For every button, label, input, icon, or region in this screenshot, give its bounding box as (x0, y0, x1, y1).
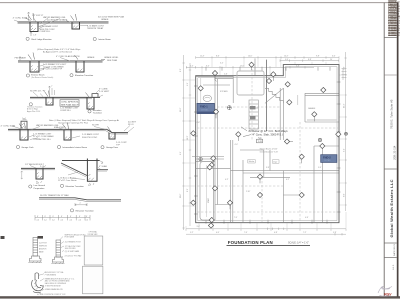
svg-text:4'-0": 4'-0" (235, 144, 239, 146)
plan interior walls vertical (215, 58, 322, 222)
detail 4 slab line (8, 129, 128, 132)
svg-text:COMPACTED FILL: COMPACTED FILL (33, 138, 52, 141)
plan wall opening ticks (194, 67, 341, 224)
svg-text:3" MIN FROM EDGE: 3" MIN FROM EDGE (45, 286, 62, 288)
svg-text:8'-0": 8'-0" (344, 193, 346, 197)
detail 4 label B (57, 145, 60, 148)
svg-text:Garage Door: Garage Door (106, 146, 118, 149)
svg-text:2-4: 2-4 (52, 219, 55, 221)
svg-text:Dryer: Dryer (273, 160, 278, 163)
svg-text:4x4 POST: 4x4 POST (39, 243, 47, 245)
svg-text:5'-8": 5'-8" (333, 232, 337, 234)
post circle 3 (318, 138, 321, 141)
svg-text:2'-10": 2'-10" (246, 191, 251, 193)
svg-text:20": 20" (88, 185, 91, 187)
pier detail A tag (38, 236, 44, 239)
svg-text:12"x20" CONC BEAM: 12"x20" CONC BEAM (33, 135, 54, 138)
svg-text:4x4 TREATED POST: 4x4 TREATED POST (65, 240, 81, 243)
svg-text:5'-0": 5'-0" (318, 167, 322, 169)
svg-text:9'-2": 9'-2" (344, 148, 346, 152)
svg-text:2-4: 2-4 (70, 219, 73, 221)
detail 1: brick ledge / interior beam section (18, 22, 109, 32)
svg-text:SLOPE 1/4" / FT: SLOPE 1/4" / FT (30, 90, 46, 92)
stair ladder dark treads (250, 106, 256, 109)
svg-text:6'-4": 6'-4" (187, 82, 189, 86)
svg-text:FIN GRADE: FIN GRADE (15, 57, 27, 60)
svg-text:FND-2: FND-2 (323, 155, 331, 159)
svg-text:3" CLR COVER TYP: 3" CLR COVER TYP (43, 68, 63, 70)
svg-text:3'-6": 3'-6" (266, 167, 270, 169)
svg-text:As Approved P.T. or Reinforced: As Approved P.T. or Reinforced (43, 51, 73, 54)
svg-text:6'-0": 6'-0" (332, 56, 336, 58)
svg-text:3000 PSI CONC: 3000 PSI CONC (82, 137, 98, 139)
svg-text:DATE 08-21: DATE 08-21 (393, 243, 396, 256)
svg-text:FND-1: FND-1 (200, 105, 208, 109)
plan top dimension line A (196, 56, 339, 58)
plan outer walls (196, 65, 339, 223)
detail 8 numbers (37, 216, 89, 221)
detail 2: exterior beam section (18, 59, 105, 72)
svg-text:1'-8": 1'-8" (33, 35, 37, 37)
right dim tick cluster (342, 69, 347, 81)
detail 6 top line (62, 160, 100, 162)
detail 5: low ground prep section (21, 168, 55, 179)
title block divider 3 (384, 242, 397, 244)
signature mark (378, 286, 392, 296)
slab note tag box (257, 139, 263, 143)
svg-text:6x6 10/10 WWM SEE PLAN: 6x6 10/10 WWM SEE PLAN (98, 15, 125, 18)
svg-text:4'-2": 4'-2" (225, 179, 229, 181)
svg-text:2-#5 BARS CONT: 2-#5 BARS CONT (82, 133, 100, 136)
detail 6 leader lines (68, 161, 103, 186)
detail 3 curb upstand (92, 94, 98, 98)
title block divider 1 (384, 36, 397, 38)
blue callout box 1 (197, 103, 214, 113)
detail 7 label (70, 209, 73, 212)
svg-text:COMP FILL: COMP FILL (60, 110, 72, 112)
svg-text:(2) #4 VERT BARS: (2) #4 VERT BARS (65, 250, 80, 253)
detail 3 slab line (30, 96, 100, 98)
plan bottom dimension texts (190, 232, 337, 234)
detail 4 curb dim (22, 118, 27, 120)
svg-text:4" CONC SLAB 3000 PSI: 4" CONC SLAB 3000 PSI (56, 55, 80, 58)
detail 3 apron note box (60, 100, 79, 106)
title block notes backing stripes (388, 0, 397, 35)
plan interior walls horizontal (192, 77, 339, 205)
detail 8: dimension strip table (35, 215, 90, 220)
svg-text:2-#4 VERT: 2-#4 VERT (99, 91, 110, 93)
detail 3 dim cluster (48, 86, 54, 95)
detail 1 label A (26, 37, 29, 40)
sheet bottom border band (0, 296, 400, 298)
closet room rounded outline (237, 71, 264, 95)
detail 5 slab line (21, 167, 55, 169)
detail 7: step transition plan (39, 198, 121, 202)
svg-text:JOB: 21-114: JOB: 21-114 (392, 145, 396, 160)
detail 2 footing pit B (76, 61, 84, 72)
svg-text:Exterior Beam: Exterior Beam (31, 74, 44, 77)
svg-text:2-4: 2-4 (86, 219, 89, 221)
svg-text:Elevation Transition: Elevation Transition (66, 185, 85, 188)
detail 3 leader lines (33, 90, 103, 97)
detail 3 step pit (46, 97, 53, 105)
plan left dimension line 2 (189, 63, 191, 226)
svg-text:5'-2": 5'-2" (190, 232, 194, 234)
hall heavy vertical wall (266, 60, 268, 131)
slab note leaders (241, 127, 251, 137)
plan side extension lines (185, 75, 344, 206)
svg-text:9'-8": 9'-8" (316, 56, 320, 58)
pier detail A column (29, 238, 43, 264)
title block left divider line (383, 3, 385, 297)
pier detail A base (30, 256, 42, 261)
svg-text:12'-6": 12'-6" (180, 107, 182, 112)
svg-text:7'-4": 7'-4" (244, 232, 248, 234)
svg-text:STAIR: STAIR (207, 197, 210, 203)
svg-text:4'-6": 4'-6" (305, 217, 309, 219)
plan top dimension line B (186, 59, 339, 68)
title block notes text column (388, 0, 400, 37)
svg-text:GRADE BEAM BELOW: GRADE BEAM BELOW (45, 288, 63, 291)
svg-text:14. CODE IRC 2015: 14. CODE IRC 2015 (388, 35, 400, 37)
svg-text:RGV: RGV (384, 293, 392, 297)
sheet right border line (397, 2, 399, 297)
detail 6 footing pit (87, 159, 97, 182)
pantry oval (203, 95, 211, 101)
svg-text:Transition: Transition (93, 112, 103, 115)
svg-text:4" CONC SLAB: 4" CONC SLAB (13, 17, 28, 20)
svg-text:DETAIL: DETAIL (201, 109, 209, 112)
svg-text:EXP JOINT: EXP JOINT (54, 127, 65, 129)
post circle 2 (199, 157, 202, 160)
anchor detail notes (40, 271, 75, 296)
svg-text:2x4 KEY W/ #4 BARS: 2x4 KEY W/ #4 BARS (47, 18, 68, 21)
svg-text:6'-2": 6'-2" (190, 66, 194, 68)
detail 5 dim line (21, 171, 23, 179)
svg-text:Preparation: Preparation (34, 187, 46, 190)
svg-text:ANCHOR: ANCHOR (39, 248, 47, 251)
svg-text:GRADE LEVEL: GRADE LEVEL (104, 56, 119, 59)
svg-text:Brick Ledge Elevation: Brick Ledge Elevation (32, 38, 53, 41)
svg-text:2-4: 2-4 (44, 219, 47, 221)
svg-text:4" SLAB: 4" SLAB (99, 165, 107, 168)
svg-text:SIMPSON: SIMPSON (39, 246, 48, 248)
svg-text:2-4: 2-4 (79, 219, 82, 221)
detail 5 footing pit (36, 168, 43, 179)
svg-text:2-#5 REBAR CONT: 2-#5 REBAR CONT (33, 133, 52, 136)
blue callout box 2 (321, 155, 337, 163)
svg-text:Low Ground: Low Ground (34, 184, 46, 187)
detail 4 footing pit C (109, 133, 115, 139)
pier detail B base (53, 257, 64, 262)
svg-text:Intermediate Interior Beam: Intermediate Interior Beam (62, 146, 87, 149)
detail 2 footing pit A (30, 61, 39, 72)
svg-text:CONC. APRON SL: CONC. APRON SL (61, 100, 80, 103)
detail 7 step line (39, 198, 121, 200)
sheet top border line (0, 2, 397, 4)
detail 5 label (29, 185, 32, 188)
svg-text:Elevation Transition: Elevation Transition (76, 209, 95, 212)
detail 3 footing pit B (87, 97, 94, 109)
detail 7 step dim (75, 203, 87, 206)
svg-text:Appro Plan 21-14: Appro Plan 21-14 (27, 110, 40, 113)
svg-text:3'-4": 3'-4" (197, 226, 201, 228)
diamond at hall (266, 78, 271, 83)
svg-text:7": 7" (51, 86, 53, 88)
svg-text:9'-4": 9'-4" (206, 66, 210, 68)
corner tag (1, 236, 5, 239)
svg-text:Exterior Beams 12"x20": Exterior Beams 12"x20" (260, 147, 278, 150)
plan bottom extension lines (186, 212, 346, 228)
plan interior dim texts (197, 63, 322, 229)
svg-text:#3 Rebar @ 12" O.C. Both Ways: #3 Rebar @ 12" O.C. Both Ways (249, 129, 289, 133)
detail 3: step-down / apron section (30, 94, 100, 109)
svg-text:GRADE: GRADE (87, 56, 95, 59)
svg-text:BASE: BASE (39, 251, 44, 254)
svg-text:10'-0": 10'-0" (248, 56, 253, 58)
svg-text:2'-8": 2'-8" (197, 122, 201, 124)
post circle 4 (345, 132, 348, 135)
svg-text:24"x24"x12" FTG PAD: 24"x24"x12" FTG PAD (65, 254, 83, 257)
svg-text:Garage Curb: Garage Curb (21, 146, 34, 149)
svg-text:Garage Door Openings Per Plan: Garage Door Openings Per Plan (58, 122, 89, 125)
plan left dimension line 1 (182, 55, 184, 230)
plan right dimension texts (344, 66, 346, 197)
detail 6 label (60, 184, 63, 187)
anchor detail curb (32, 273, 44, 293)
svg-text:DETAIL: DETAIL (324, 159, 332, 162)
svg-text:SEE PLAN: SEE PLAN (107, 59, 118, 62)
svg-text:POST BASE: POST BASE (65, 236, 75, 239)
svg-text:10'-4": 10'-4" (344, 103, 346, 108)
detail 6 slope line (61, 163, 87, 176)
svg-text:11'-0": 11'-0" (180, 193, 182, 198)
detail 1 slab line (18, 21, 109, 23)
plan bottom dimension line A (186, 228, 346, 236)
svg-text:12"x20" Conc Beam: 12"x20" Conc Beam (58, 180, 77, 182)
detail 4 footing pit B (64, 129, 71, 140)
svg-text:Interior Beam: Interior Beam (98, 38, 111, 41)
svg-text:7'-2": 7'-2" (303, 232, 307, 234)
optional schedule box 2 (83, 266, 103, 294)
svg-text:1-#5 Bars at 8" O.C.: 1-#5 Bars at 8" O.C. (58, 177, 77, 180)
svg-text:8'-6": 8'-6" (216, 56, 220, 58)
svg-text:6'-2": 6'-2" (286, 179, 290, 181)
detail 1 label B (93, 37, 96, 40)
svg-text:14'-2": 14'-2" (284, 56, 289, 58)
detail 2 label B (70, 74, 73, 77)
svg-text:10'-2": 10'-2" (187, 135, 189, 140)
svg-text:6'-0": 6'-0" (216, 232, 220, 234)
detail 5 leader lines (30, 166, 46, 184)
svg-text:1-#5 REBAR TOP & BOT: 1-#5 REBAR TOP & BOT (43, 63, 67, 66)
pantry light vertical (200, 78, 202, 157)
pit arrow clusters (19, 13, 111, 132)
detail 1 pit A depth dim (30, 32, 32, 36)
svg-text:4" CONC SLAB: 4" CONC SLAB (1, 125, 16, 128)
stairwell rounded rect (200, 162, 213, 220)
svg-text:Global Wealth Estates LLC: Global Wealth Estates LLC (389, 179, 394, 237)
detail 2 slab end arrow (101, 59, 105, 61)
plan dashed beam lines (197, 69, 338, 222)
svg-text:Interior Beams 12" X 20": Interior Beams 12" X 20" (260, 150, 279, 153)
svg-text:SEE PLAN 3000 P: SEE PLAN 3000 P (61, 103, 79, 106)
detail 2 slab line (18, 60, 103, 62)
svg-text:9'-0": 9'-0" (285, 59, 289, 61)
diamond leader stems (213, 66, 314, 209)
pier detail A notes (39, 243, 48, 254)
pier detail B column (52, 240, 65, 264)
pier detail B leader lines (59, 237, 64, 259)
svg-text:STONE VNR: STONE VNR (88, 234, 99, 236)
svg-text:EACH SIDE OF OPENINGS: EACH SIDE OF OPENINGS (45, 282, 67, 285)
svg-text:(For Reuse of Footer Details): (For Reuse of Footer Details) (31, 76, 53, 79)
detail 4 label A (16, 145, 19, 148)
plan top extension lines (202, 59, 339, 76)
svg-text:S-1.0: S-1.0 (393, 264, 395, 270)
svg-text:TERMITE TREAT: TERMITE TREAT (87, 27, 104, 30)
detail 4 footing pit A (20, 129, 28, 140)
svg-text:VAPOR BARRIER 6 MIL: VAPOR BARRIER 6 MIL (43, 16, 67, 19)
svg-text:2-4: 2-4 (61, 219, 64, 221)
svg-text:7920 E. Tyler Suite #5: 7920 E. Tyler Suite #5 (390, 99, 394, 129)
svg-text:2-#5 REBAR CONT: 2-#5 REBAR CONT (40, 25, 59, 28)
svg-text:SCALE: 1/4" = 1'-0": SCALE: 1/4" = 1'-0" (288, 242, 309, 245)
detail 1 footing pit A (30, 22, 38, 32)
svg-text:FOUNDATION PLAN: FOUNDATION PLAN (228, 240, 273, 245)
title block divider 4 (384, 257, 397, 259)
svg-text:7" MIN EMBED: 7" MIN EMBED (45, 274, 57, 276)
stairwell center line (206, 165, 208, 217)
pier detail B notes (65, 234, 87, 257)
svg-text:(4 Bars Required) Slabs 4'-0": (4 Bars Required) Slabs 4'-0" / 5'-0" Bo… (37, 48, 80, 51)
svg-text:9'-4": 9'-4" (180, 151, 182, 155)
svg-text:KITCHEN: KITCHEN (220, 91, 228, 93)
svg-text:7'-0": 7'-0" (234, 217, 238, 219)
plan right dimension line (344, 52, 346, 211)
svg-text:2-#5 BARS CONT: 2-#5 BARS CONT (87, 25, 105, 28)
detail 2 label A (26, 74, 29, 77)
stair zigzag upper right (265, 88, 283, 103)
svg-text:12'-4": 12'-4" (200, 56, 205, 58)
svg-text:5'-6": 5'-6" (224, 74, 228, 76)
svg-text:W/ #4: W/ #4 (128, 124, 134, 126)
svg-text:SLOPE TRANSITION 12" MAX: SLOPE TRANSITION 12" MAX (40, 194, 69, 197)
svg-text:8'-2": 8'-2" (180, 68, 182, 72)
detail 1 leader lines (14, 12, 88, 29)
svg-text:8'-6": 8'-6" (187, 188, 189, 192)
title block divider 2 (384, 168, 397, 170)
post circle 1 (227, 106, 231, 110)
detail 6 right slab (97, 169, 108, 171)
svg-text:2-4: 2-4 (37, 219, 40, 221)
plan top dimension text B (190, 59, 333, 68)
svg-text:6'-8": 6'-8" (274, 232, 278, 234)
detail 1 footing pit B (72, 22, 80, 29)
svg-text:3'-2": 3'-2" (220, 63, 224, 65)
anchor detail leader lines (37, 274, 44, 295)
section diamonds (191, 62, 341, 228)
svg-text:Elevation Transition: Elevation Transition (75, 74, 94, 77)
detail 4 curb upstand (21, 121, 27, 129)
svg-text:4" Conc. Slab, 3000 P.S.I.: 4" Conc. Slab, 3000 P.S.I. (253, 132, 284, 136)
detail 4: garage curb / door section (8, 121, 128, 140)
detail 2 leader lines (19, 57, 70, 72)
svg-text:MIN CONCRETE COVER 3" CLR: MIN CONCRETE COVER 3" CLR (40, 294, 66, 296)
detail 3 label B (88, 110, 91, 113)
title block divider 0b (384, 74, 397, 76)
svg-text:Washer: Washer (249, 160, 255, 163)
detail 3 label A (29, 103, 32, 106)
washer tag (248, 160, 255, 163)
svg-text:SLOPE: SLOPE (92, 125, 100, 127)
foundation plan title underline (227, 244, 311, 246)
hall light vertical (297, 95, 299, 105)
plan left dimension texts (180, 68, 189, 198)
svg-text:COMP FILL: COMP FILL (40, 31, 52, 33)
detail 6: elevation transition slope section (61, 159, 108, 182)
svg-text:8'-8": 8'-8" (308, 59, 312, 61)
optional schedule box 1 (84, 236, 103, 265)
dryer tag (272, 160, 279, 163)
diamond near slab note (284, 139, 289, 144)
stair ladder (249, 100, 258, 129)
svg-text:7'-0": 7'-0" (344, 66, 346, 70)
detail 4 label C (101, 146, 104, 149)
detail 4 leader lines (12, 126, 134, 140)
svg-text:GARAGE: GARAGE (308, 107, 316, 110)
svg-text:GRADE: GRADE (101, 18, 109, 21)
plan top dimension text A (200, 56, 336, 58)
